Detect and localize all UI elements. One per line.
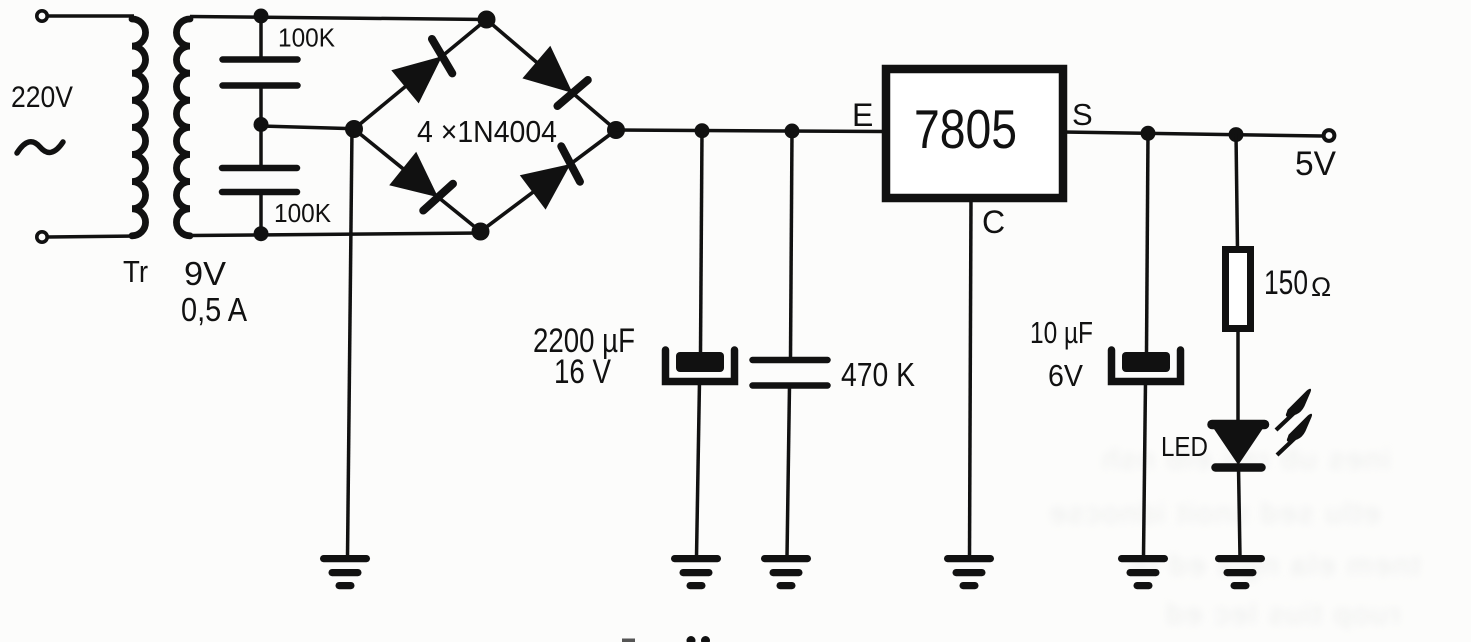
node C1 junction	[695, 123, 710, 138]
wire node to capacitor C1	[701, 131, 703, 353]
terminal output 5V	[1324, 130, 1335, 141]
transformer Tr primary winding	[132, 19, 146, 236]
wire capacitor C2 to ground	[787, 386, 790, 558]
LED D5 triangle	[1214, 429, 1263, 465]
diode D4 (bottom to right)	[520, 164, 571, 210]
wire bottom-left terminal to primary	[48, 236, 135, 237]
capacitor Ca 100K upper	[223, 56, 298, 63]
capacitor C1 2200uF electrolytic	[676, 352, 724, 372]
svg-text:5V: 5V	[1295, 145, 1336, 183]
svg-text:100K: 100K	[274, 198, 332, 228]
node bridge right	[607, 121, 625, 139]
capacitor Cb 100K lower	[222, 165, 297, 172]
wire LED to ground	[1239, 467, 1241, 557]
capacitor C3 10uF electrolytic	[1122, 352, 1170, 372]
node bridge left	[345, 120, 363, 138]
wire midpoint to capacitor Cb	[259, 125, 263, 169]
resistor R1 150 ohm	[1226, 250, 1251, 329]
svg-text:9V: 9V	[184, 255, 226, 292]
svg-text:LED: LED	[1161, 431, 1208, 462]
svg-text:150: 150	[1264, 264, 1308, 302]
svg-text:0,5 A: 0,5 A	[181, 291, 247, 328]
svg-text:7805: 7805	[914, 98, 1017, 160]
wire bridge right node to 7805 E	[616, 130, 884, 132]
regulator U1 7805 body	[886, 69, 1063, 198]
wire capacitor C1 to ground	[697, 381, 700, 557]
bleed-through text from reverse page	[830, 443, 1390, 477]
node secondary bottom junction	[254, 226, 269, 241]
svg-text:Ω: Ω	[1311, 272, 1331, 302]
node C3 junction	[1141, 126, 1156, 141]
wire bridge left-top side	[354, 20, 487, 130]
LED D5 anode bar	[1212, 420, 1265, 430]
wire capacitor C3 to ground	[1144, 381, 1146, 557]
AC sine symbol	[17, 142, 63, 153]
ground (LED)	[1219, 555, 1262, 562]
wire capacitor Cb to bottom node	[259, 192, 263, 234]
svg-text:6V: 6V	[1048, 358, 1083, 393]
diode D1 (left to top)	[391, 56, 442, 103]
wire bridge left node to ground	[348, 129, 353, 557]
svg-text:100K: 100K	[278, 23, 336, 53]
wire top-left terminal to primary	[48, 14, 135, 18]
svg-text:470 K: 470 K	[841, 356, 915, 393]
wire capacitor Ca to midpoint node	[259, 86, 263, 125]
terminal bottom-left (220V input)	[37, 232, 47, 242]
svg-text:4 ×1N4004: 4 ×1N4004	[417, 114, 557, 149]
wire bridge bottom-right side	[481, 130, 617, 232]
svg-text:16 V: 16 V	[554, 353, 611, 391]
wire node to capacitor C2	[791, 131, 793, 358]
ground (C1)	[675, 555, 718, 562]
svg-text:Tr: Tr	[123, 254, 148, 289]
diode D2 (top to right)	[522, 46, 572, 93]
LED D5 cathode bar	[1216, 463, 1262, 472]
svg-text:E: E	[852, 97, 873, 133]
wire resistor R1 to LED	[1236, 329, 1240, 424]
terminal top-left (220V input)	[37, 11, 47, 21]
wire node to capacitor Ca	[259, 16, 263, 57]
node R1 junction	[1229, 127, 1244, 142]
transformer Tr secondary winding	[176, 19, 190, 236]
caption stub (cut-off figure caption)	[687, 636, 696, 642]
ground (bridge minus rail)	[324, 555, 367, 562]
wire midpoint node to bridge left node	[261, 126, 355, 129]
wire bridge top-right side	[487, 20, 617, 131]
svg-text:10 µF: 10 µF	[1030, 315, 1093, 350]
wire secondary top to bridge top node	[190, 17, 487, 20]
ground (C2)	[765, 555, 808, 562]
node C2 junction	[785, 124, 800, 139]
LED light arrow lower	[1277, 414, 1312, 455]
capacitor C2 470K	[753, 357, 828, 364]
wire 7805 S to output terminal	[1063, 132, 1323, 136]
node bridge top	[478, 11, 496, 29]
diode D3 (left to bottom)	[389, 152, 438, 197]
wire node to resistor R1	[1236, 134, 1238, 250]
ground (C3)	[1122, 555, 1165, 562]
svg-text:220V: 220V	[11, 81, 73, 114]
ground (7805 common)	[948, 555, 991, 562]
node capacitor midpoint	[254, 117, 269, 132]
node secondary top junction	[254, 9, 269, 24]
svg-text:S: S	[1072, 97, 1093, 132]
LED light arrow upper	[1276, 389, 1311, 430]
wire node to capacitor C3	[1147, 133, 1149, 353]
node bridge bottom	[472, 223, 490, 241]
wire 7805 C pin to ground	[970, 198, 972, 557]
wire bridge left-bottom side	[354, 129, 481, 232]
svg-text:C: C	[982, 204, 1005, 240]
wire secondary bottom to bridge bottom node	[190, 233, 481, 236]
